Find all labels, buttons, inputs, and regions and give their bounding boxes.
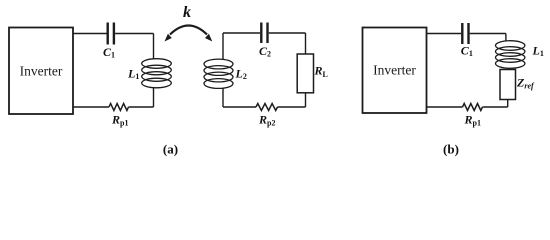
svg-text:Inverter: Inverter bbox=[20, 64, 63, 79]
svg-text:k: k bbox=[183, 4, 191, 21]
svg-text:Inverter: Inverter bbox=[373, 63, 416, 78]
svg-text:(b): (b) bbox=[443, 142, 459, 157]
svg-text:(a): (a) bbox=[163, 142, 178, 157]
